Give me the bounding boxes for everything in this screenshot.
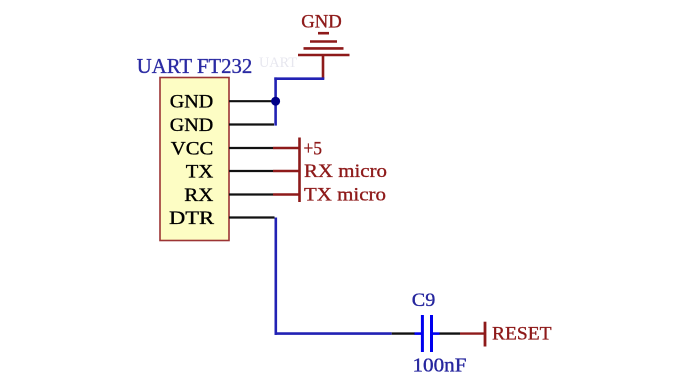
svg-text:VCC: VCC [171,138,214,159]
capacitor C9 right lead [440,332,461,334]
svg-text:TX micro: TX micro [304,185,386,206]
svg-text:GND: GND [301,12,342,33]
GND symbol bar 3 [304,47,344,50]
svg-text:RX: RX [184,185,213,206]
wire TX to RX micro port [273,170,300,172]
pin 6 lead [229,216,275,218]
wire DTR horizontal to C9 [275,332,392,335]
pin 2 lead [229,123,274,125]
svg-text:RX micro: RX micro [304,161,387,182]
svg-text:+5: +5 [304,138,323,159]
svg-text:GND: GND [170,115,214,136]
GND symbol bar 1 [318,32,329,35]
pin 3 lead [229,147,273,149]
svg-text:100nF: 100nF [413,355,467,376]
svg-text:DTR: DTR [169,208,214,229]
pin 4 lead [229,170,273,172]
svg-text:GND: GND [170,92,214,113]
pin 5 lead [229,193,273,195]
capacitor C9 right lead stub [433,332,440,335]
svg-text:UART FT232: UART FT232 [137,54,253,78]
capacitor C9 left lead [392,332,415,334]
port bar for +5 / RX micro / TX micro [298,138,301,203]
junction dot [271,97,280,106]
wire VCC to +5 port [273,147,300,149]
wire GND horizontal [274,77,324,80]
svg-text:RESET: RESET [492,324,552,345]
capacitor C9 left lead stub [415,332,422,335]
GND symbol stem [322,55,325,79]
wire GND vertical [274,77,277,125]
GND symbol bar 4 [298,54,350,57]
capacitor C9 right plate [430,315,433,352]
svg-text:TX: TX [186,161,214,182]
connector box UART FT232 [160,78,229,241]
svg-text:C9: C9 [412,290,436,311]
wire RX to TX micro port [273,193,300,195]
GND symbol bar 2 [310,40,337,43]
RESET port bar [484,322,487,347]
wire C9 to RESET port [460,332,485,334]
pin 1 lead [229,100,273,102]
svg-text:UART: UART [259,55,297,71]
wire DTR vertical [274,218,277,335]
capacitor C9 left plate [421,315,424,352]
